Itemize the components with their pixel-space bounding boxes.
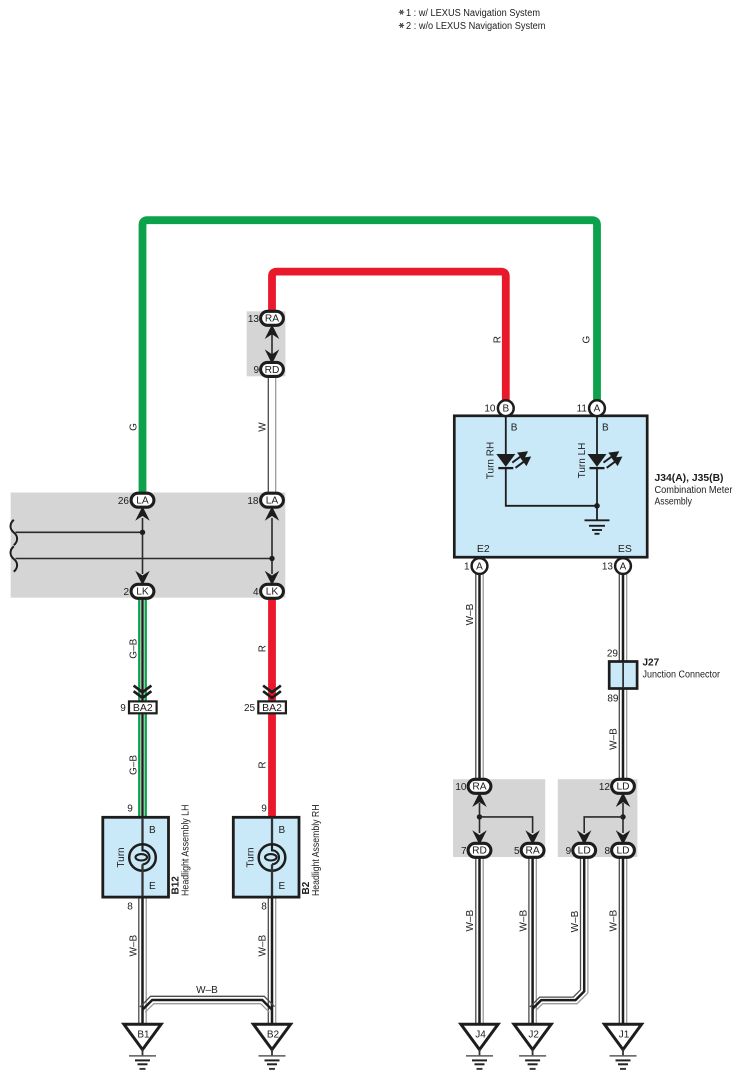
- svg-text:ES: ES: [618, 543, 632, 555]
- connector LD pin 12: [612, 779, 635, 793]
- wire: LED RH to internal ground bus: [506, 468, 597, 506]
- svg-text:W–B: W–B: [465, 603, 476, 625]
- svg-text:10: 10: [484, 404, 496, 415]
- svg-text:2: 2: [123, 587, 129, 598]
- arrow into RD7: [474, 832, 485, 843]
- harness continuation S-mark upper: [11, 520, 18, 545]
- svg-text:B: B: [502, 404, 509, 415]
- wire W: RD9 to LA18: [267, 376, 269, 494]
- wire: LED LH to internal ground: [596, 468, 598, 520]
- svg-text:18: 18: [247, 496, 259, 507]
- svg-text:9: 9: [261, 803, 267, 814]
- pin 13 A circle: [615, 558, 631, 574]
- note marker 1: [399, 10, 404, 15]
- svg-text:A: A: [476, 561, 483, 572]
- svg-text:E: E: [149, 881, 156, 892]
- pin 10 B circle: [498, 400, 514, 416]
- junction dot LD12 branch: [620, 814, 625, 819]
- svg-text:10: 10: [455, 782, 467, 793]
- ground J4: [461, 1024, 498, 1049]
- svg-text:B2: B2: [267, 1029, 280, 1040]
- svg-text:J2: J2: [528, 1029, 539, 1040]
- svg-text:11: 11: [577, 404, 588, 415]
- LED Turn RH emission arrows: [512, 453, 529, 468]
- svg-text:26: 26: [118, 496, 130, 507]
- LED Turn RH: [496, 454, 515, 467]
- wire: harness line to LA18/LK4 column: [16, 558, 273, 560]
- svg-text:J27: J27: [643, 658, 660, 669]
- connector RD pin 9: [261, 362, 284, 376]
- svg-text:G–B: G–B: [128, 755, 139, 775]
- wire: pin10 to LED Turn RH: [505, 416, 507, 455]
- LED Turn LH emission arrows: [604, 453, 621, 468]
- svg-text:LA: LA: [266, 496, 279, 507]
- connector LD pin 8: [612, 843, 635, 857]
- svg-text:Turn: Turn: [246, 847, 257, 867]
- junction connector J27: [609, 662, 637, 689]
- connector LA pin 18: [261, 493, 284, 507]
- connector block RA/RD-RA (gray, right 1): [453, 779, 545, 857]
- wire: branch to RA5: [480, 817, 533, 833]
- svg-text:Turn: Turn: [116, 847, 127, 867]
- svg-text:9: 9: [127, 803, 133, 814]
- junction dot RA10 branch: [477, 814, 482, 819]
- ground J2: [514, 1024, 551, 1049]
- svg-text:E: E: [279, 881, 286, 892]
- svg-text:A: A: [594, 404, 601, 415]
- connector BA2 pin 9 (LH): [129, 701, 157, 713]
- svg-text:RA: RA: [265, 314, 279, 325]
- connector LK pin 2: [131, 584, 154, 598]
- arrow into LD9: [579, 832, 590, 843]
- wire W-B: RA5 to ground J2: [528, 857, 530, 1024]
- svg-text:8: 8: [261, 901, 267, 912]
- pin 1 A circle: [472, 558, 488, 574]
- headlight assembly LH B12: [103, 817, 169, 897]
- svg-text:LA: LA: [136, 496, 149, 507]
- svg-text:W–B: W–B: [609, 910, 620, 932]
- arrow into LD8: [617, 832, 628, 843]
- svg-text:RA: RA: [526, 846, 540, 857]
- wire: RA10 link down: [479, 803, 481, 833]
- svg-text:BA2: BA2: [262, 702, 282, 714]
- headlight assembly RH B2: [233, 817, 299, 897]
- wire R: BA2 to headlight RH pin 9: [268, 713, 276, 818]
- svg-text:W–B: W–B: [609, 728, 620, 750]
- wire: LD12 link down: [622, 803, 624, 833]
- ground B1: [124, 1024, 161, 1049]
- wire: bulb feed inside B2: [271, 818, 273, 845]
- harness band (instrument panel wire): [11, 493, 286, 598]
- wire: link RA13 to RD9: [271, 330, 273, 358]
- connector RD pin 7: [468, 843, 491, 857]
- svg-text:W–B: W–B: [128, 935, 139, 957]
- wire: pin11 to LED Turn LH: [596, 416, 598, 455]
- svg-text:B: B: [602, 422, 609, 433]
- connector block LD (gray, right 2): [558, 779, 638, 857]
- wire W-B: bridge between B1 and B2 ground runs: [140, 996, 275, 1007]
- note marker 2: [399, 23, 404, 28]
- wire: bulb feed inside B12: [141, 818, 143, 845]
- svg-text:4: 4: [253, 587, 259, 598]
- wire G-B: BA2 to headlight LH pin 9: [138, 713, 140, 818]
- connector RA pin 5: [521, 843, 544, 857]
- connector RA pin 13: [261, 311, 284, 325]
- arrow into RA5: [527, 832, 538, 843]
- wire W-B: headlight LH pin 8 to ground B1: [138, 897, 140, 1024]
- svg-text:RD: RD: [265, 365, 280, 376]
- svg-text:R: R: [258, 761, 269, 768]
- svg-text:9: 9: [120, 703, 126, 714]
- svg-text:RA: RA: [472, 782, 486, 793]
- svg-text:LD: LD: [616, 846, 629, 857]
- svg-text:8: 8: [604, 846, 610, 857]
- wire: bulb to E inside B12: [141, 864, 143, 896]
- arrow into LD12: [617, 794, 628, 805]
- svg-text:9: 9: [566, 846, 572, 857]
- arrow into LA18: [266, 508, 277, 519]
- svg-text:12: 12: [599, 782, 611, 793]
- svg-text:9: 9: [253, 365, 259, 376]
- connector RA pin 10: [468, 779, 491, 793]
- bulb Turn (B12): [129, 844, 156, 871]
- arrow into LA26: [137, 508, 148, 519]
- svg-text:G: G: [582, 335, 593, 343]
- svg-text:BA2: BA2: [133, 702, 153, 714]
- internal ground symbol: [585, 520, 610, 534]
- svg-text:2 : w/o LEXUS Navigation Syste: 2 : w/o LEXUS Navigation System: [406, 21, 546, 32]
- svg-text:Headlight Assembly RH: Headlight Assembly RH: [311, 805, 322, 897]
- svg-text:Junction Connector: Junction Connector: [643, 670, 721, 681]
- arrow into LK2: [137, 573, 148, 584]
- svg-text:G–B: G–B: [128, 638, 139, 658]
- svg-text:W: W: [258, 422, 269, 432]
- combination meter assembly box J34(A)/J35(B): [454, 416, 647, 557]
- svg-text:J4: J4: [475, 1029, 486, 1040]
- svg-text:J34(A), J35(B): J34(A), J35(B): [655, 473, 724, 484]
- svg-text:W–B: W–B: [196, 985, 218, 996]
- svg-text:7: 7: [461, 846, 467, 857]
- bulb Turn (B2): [259, 844, 286, 871]
- svg-text:LK: LK: [266, 587, 279, 598]
- wire G: pin LA26 to combination meter pin 11A: [143, 220, 598, 495]
- svg-text:W–B: W–B: [465, 910, 476, 932]
- svg-text:W–B: W–B: [518, 910, 529, 932]
- wire W-B: headlight RH pin 8 to ground B2: [267, 897, 269, 1024]
- svg-text:13: 13: [602, 562, 614, 573]
- svg-text:A: A: [620, 561, 627, 572]
- svg-text:B: B: [279, 825, 286, 836]
- wire W-B: LD8 to ground J1: [618, 857, 620, 1024]
- svg-text:13: 13: [248, 314, 260, 325]
- svg-text:J1: J1: [619, 1029, 630, 1040]
- svg-text:B: B: [149, 825, 156, 836]
- svg-text:25: 25: [244, 703, 256, 714]
- connector LK pin 4: [261, 584, 284, 598]
- arrow into LK4: [266, 573, 277, 584]
- wire W-B: LD9 branch joining J2 run: [530, 857, 581, 1007]
- arrow into RA10: [474, 794, 485, 805]
- svg-text:LK: LK: [136, 587, 149, 598]
- wire W-B: meter ES pin13 through J27 to LD12: [618, 574, 620, 780]
- wire G-B: LK2 to BA2 connector 9: [138, 598, 140, 702]
- arrow into RD9: [266, 351, 277, 362]
- wire: link LA26 to LK2: [142, 518, 144, 574]
- ground J1: [604, 1024, 641, 1049]
- junction dot at LA18 column: [269, 556, 274, 561]
- connector LA pin 26: [131, 493, 154, 507]
- wire R: pin RA13 to combination meter pin 10B: [272, 272, 506, 401]
- svg-text:5: 5: [514, 846, 520, 857]
- svg-text:G: G: [129, 423, 140, 431]
- LED Turn LH: [588, 454, 607, 467]
- wire: harness line to LA26/LK2 column: [16, 531, 143, 533]
- connector BA2 pin 25 (RH): [258, 701, 286, 713]
- svg-text:LD: LD: [616, 782, 629, 793]
- svg-text:R: R: [493, 336, 504, 343]
- svg-text:B: B: [511, 422, 518, 433]
- arrow chevrons into BA2 (RH): [263, 686, 281, 693]
- svg-text:R: R: [258, 645, 269, 652]
- wire: link LA18 to LK4: [271, 518, 273, 574]
- svg-text:W–B: W–B: [258, 935, 269, 957]
- connector block RA/RD (gray): [247, 311, 286, 376]
- svg-text:Turn LH: Turn LH: [577, 443, 588, 479]
- svg-text:RD: RD: [472, 846, 487, 857]
- wire: bulb to E inside B2: [271, 864, 273, 896]
- svg-text:1 : w/ LEXUS Navigation System: 1 : w/ LEXUS Navigation System: [406, 8, 540, 19]
- wire W-B: RD7 to ground J4: [475, 857, 477, 1024]
- harness continuation S-mark lower: [11, 546, 18, 571]
- svg-text:Headlight Assembly LH: Headlight Assembly LH: [180, 805, 191, 897]
- svg-text:8: 8: [127, 901, 133, 912]
- wire R: LK4 to BA2 connector 25: [268, 598, 276, 702]
- svg-text:29: 29: [607, 649, 619, 660]
- pin 11 A circle: [589, 400, 605, 416]
- svg-text:89: 89: [607, 694, 619, 705]
- svg-text:LD: LD: [578, 846, 591, 857]
- junction dot internal ground bus: [594, 503, 600, 509]
- wire W-B: meter E2 pin1 to RA10: [475, 574, 477, 780]
- svg-text:E2: E2: [477, 543, 490, 555]
- arrow into RA13: [266, 326, 277, 337]
- ground B2: [253, 1024, 290, 1049]
- arrow chevrons into BA2 (LH): [134, 686, 152, 693]
- svg-text:1: 1: [464, 562, 470, 573]
- junction dot at LA26 column: [140, 530, 145, 535]
- wire: branch to LD9: [584, 817, 623, 833]
- svg-text:Assembly: Assembly: [655, 497, 693, 508]
- svg-text:B1: B1: [137, 1029, 150, 1040]
- connector LD pin 9: [573, 843, 596, 857]
- svg-text:Combination Meter: Combination Meter: [655, 485, 734, 496]
- svg-text:W–B: W–B: [570, 910, 581, 932]
- svg-text:Turn RH: Turn RH: [486, 442, 497, 479]
